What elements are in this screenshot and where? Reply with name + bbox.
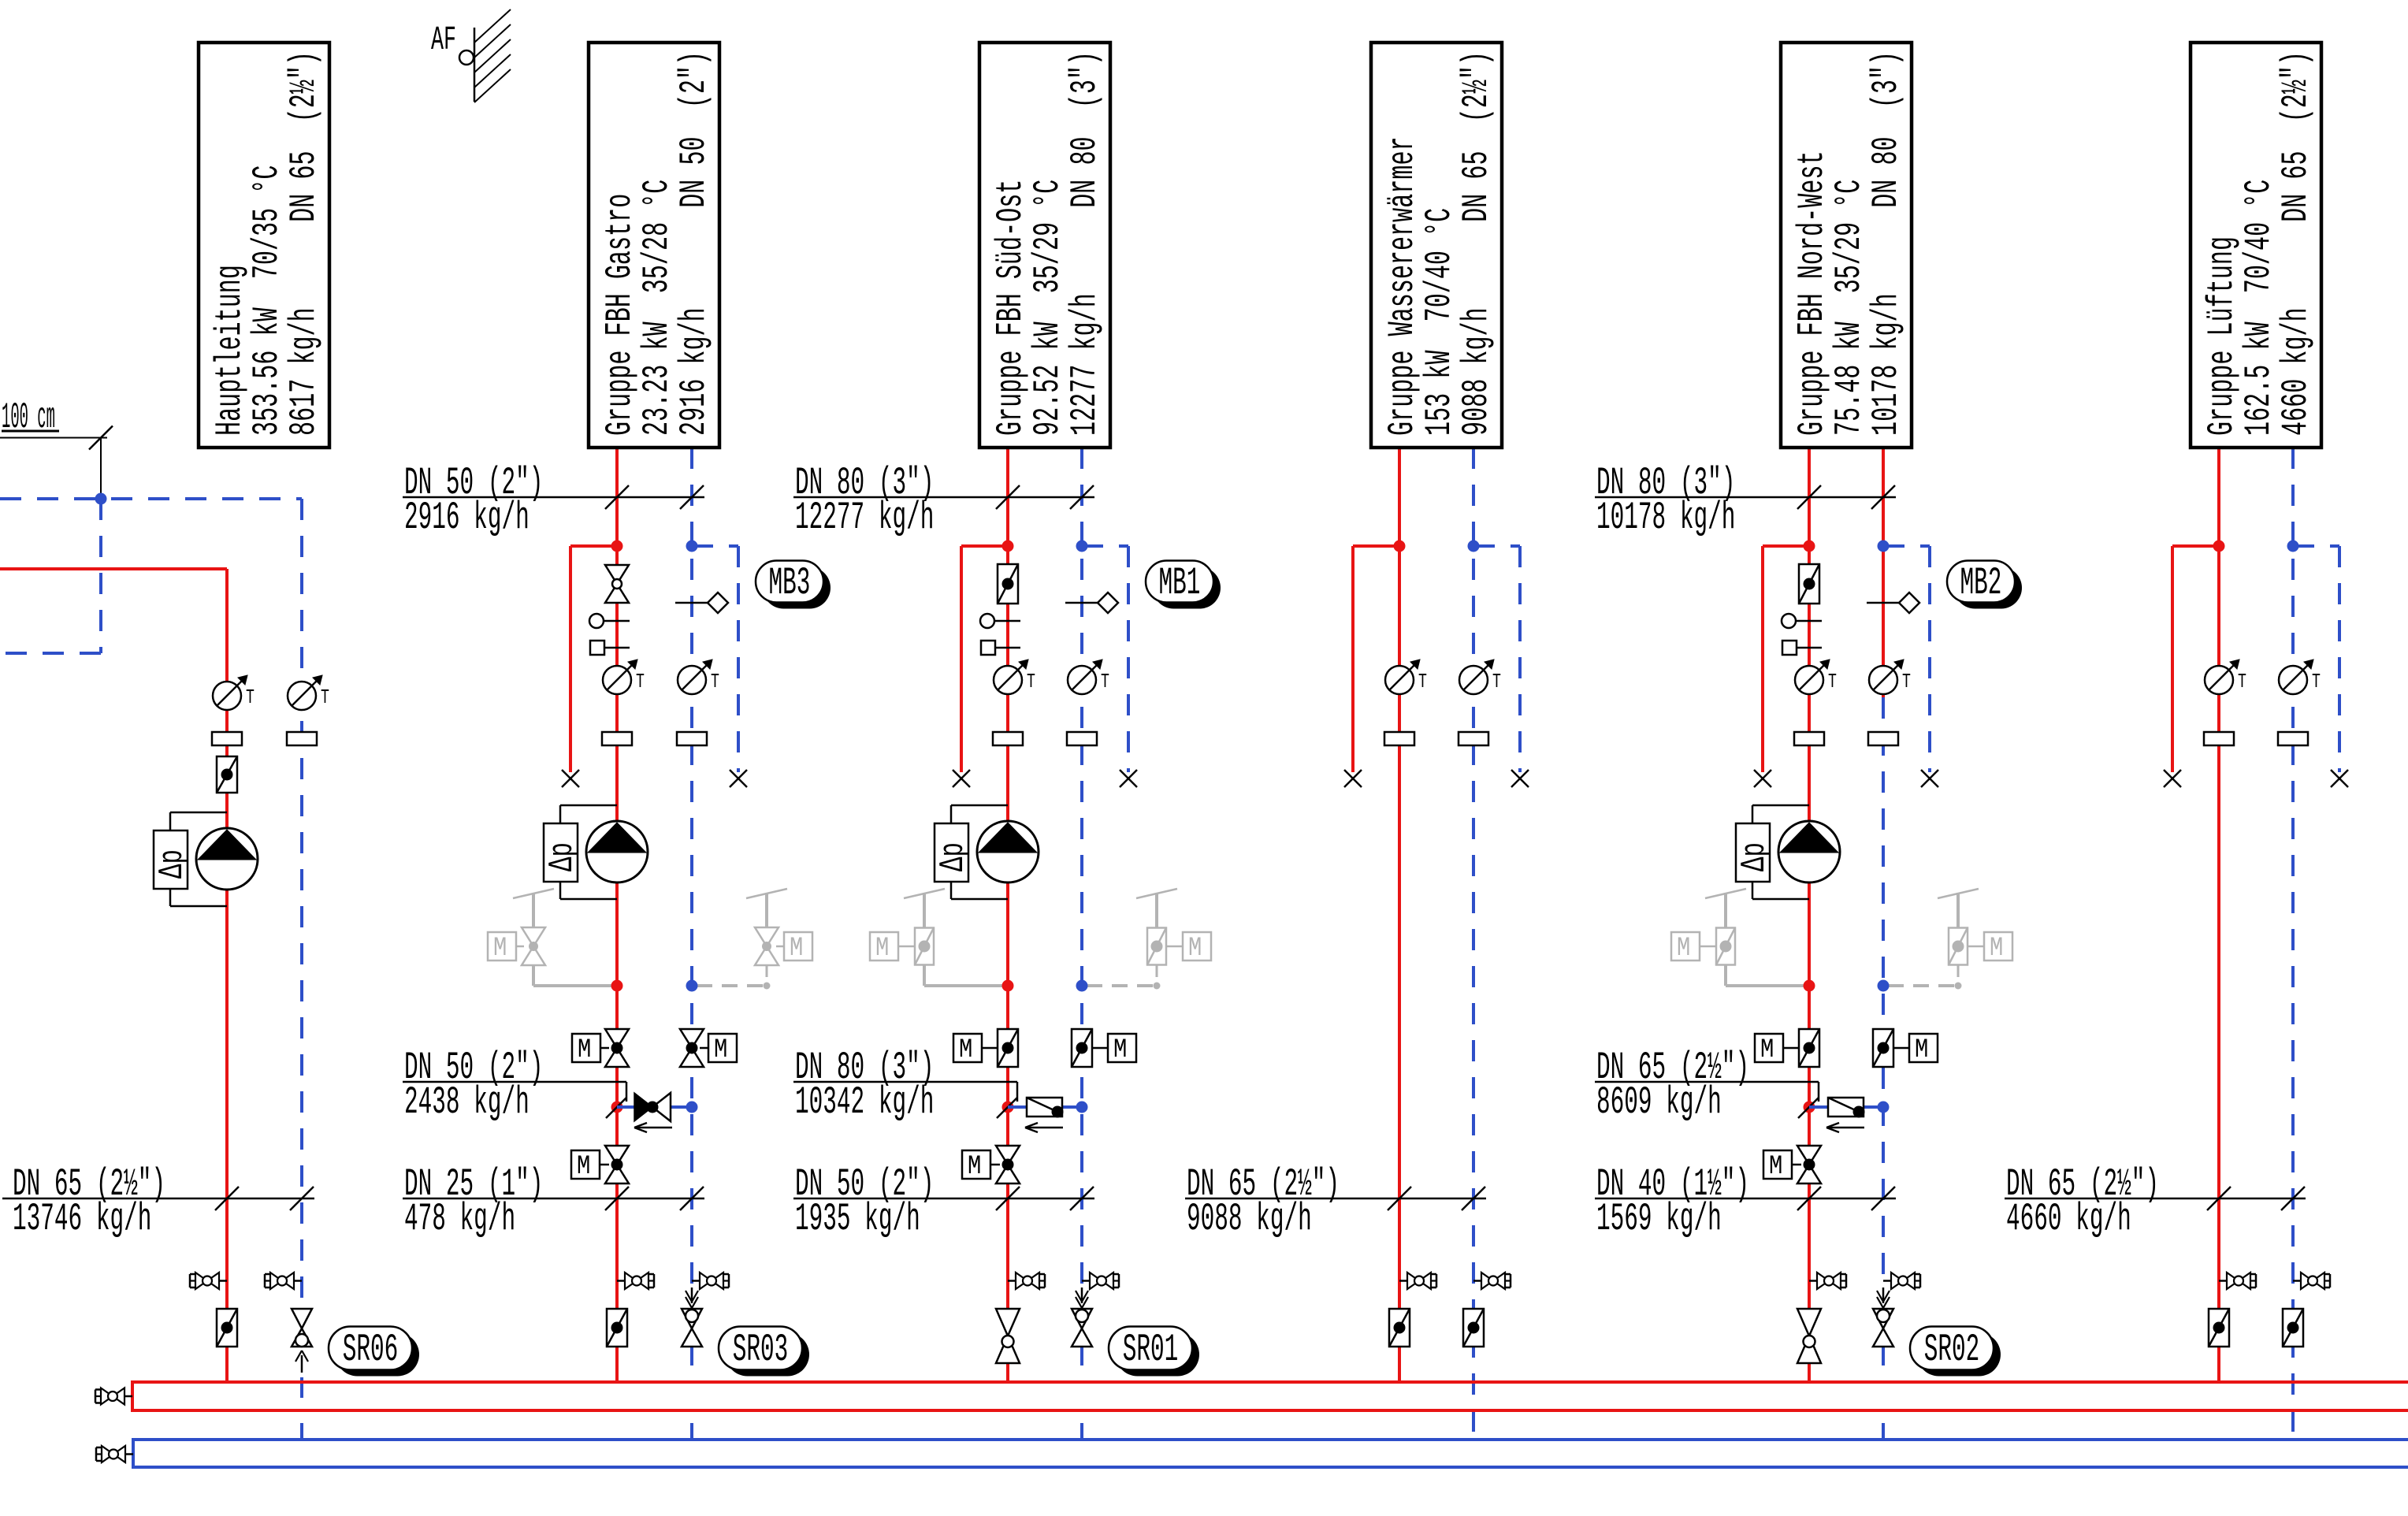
bypass pipe node supply Gruppe FBH Süd-Ost bbox=[997, 1098, 1017, 1118]
dimension label DN 80 (3") 10178 kg/h bbox=[1595, 462, 1896, 541]
drain valve return Gruppe FBH Nord-West bbox=[1883, 1273, 1920, 1289]
svg-text:M: M bbox=[790, 934, 803, 964]
supply riser (red) Gruppe FBH Nord-West bbox=[1808, 448, 1811, 1382]
svg-text:M: M bbox=[1188, 934, 1202, 964]
info box Gruppe FBH Nord-West bbox=[1781, 43, 1912, 448]
return branch node Gruppe Lüftung bbox=[2287, 541, 2299, 552]
svg-text:Gruppe FBH Süd-Ost: Gruppe FBH Süd-Ost bbox=[990, 180, 1031, 436]
shut-off valve return Gruppe Lüftung bbox=[2283, 1309, 2303, 1347]
safety valve return main bbox=[292, 1309, 312, 1440]
svg-text:Gruppe FBH Nord-West: Gruppe FBH Nord-West bbox=[1792, 150, 1833, 436]
flange supply Gruppe FBH Nord-West bbox=[1794, 732, 1824, 745]
svg-text:Gruppe Lüftung: Gruppe Lüftung bbox=[2202, 236, 2243, 436]
bypass pipe (blue) Gruppe FBH Nord-West bbox=[1809, 1105, 1883, 1109]
motor valve M return Gruppe FBH Gastro bbox=[680, 1029, 737, 1067]
scale bar 100 cm bbox=[2, 397, 59, 438]
return riser (blue dashed) Gruppe Wassererwärmer bbox=[1472, 448, 1475, 1440]
sensor (circle) supply Gruppe FBH Gastro bbox=[589, 614, 630, 628]
check valve Gruppe FBH Gastro bbox=[634, 1093, 671, 1121]
flange return Gruppe Wassererwärmer bbox=[1459, 732, 1488, 745]
return branch node Gruppe FBH Gastro bbox=[686, 541, 698, 552]
svg-text:T: T bbox=[636, 670, 645, 693]
bypass motor valve right (inactive) Gruppe FBH Süd-Ost bbox=[1087, 889, 1211, 990]
svg-text:4660 kg/h: 4660 kg/h bbox=[2006, 1198, 2131, 1242]
bypass node supply Gruppe FBH Gastro bbox=[611, 980, 623, 992]
sensor (circle) supply Gruppe FBH Nord-West bbox=[1782, 614, 1822, 628]
drain valve return main bbox=[265, 1273, 302, 1289]
supply riser (red) Gruppe Wassererwärmer bbox=[1398, 448, 1401, 1382]
drain valve supply Gruppe FBH Süd-Ost bbox=[1008, 1273, 1045, 1289]
bypass pipe node return Gruppe FBH Nord-West bbox=[1878, 1102, 1890, 1113]
supply riser (red) Gruppe Lüftung bbox=[2217, 448, 2220, 1382]
thermometer T return main bbox=[288, 675, 329, 710]
drain valve supply Gruppe FBH Nord-West bbox=[1809, 1273, 1846, 1289]
svg-text:92.52 kW 35/29 °C: 92.52 kW 35/29 °C bbox=[1027, 180, 1068, 436]
drain valve supply main bbox=[190, 1273, 227, 1289]
motor valve M bypass Gruppe FBH Nord-West bbox=[1763, 1146, 1821, 1183]
dimension label DN 80 (3") 10342 kg/h bbox=[793, 1046, 1017, 1125]
svg-text:75.48 kW 35/29 °C: 75.48 kW 35/29 °C bbox=[1829, 180, 1870, 436]
drain valve supply Gruppe Wassererwärmer bbox=[1399, 1273, 1436, 1289]
balancing valve supply main bbox=[217, 756, 237, 793]
svg-text:M: M bbox=[493, 934, 507, 964]
thermometer T return Gruppe FBH Süd-Ost bbox=[1068, 660, 1109, 694]
bypass pipe node supply Gruppe FBH Gastro bbox=[606, 1098, 626, 1118]
svg-text:Gruppe FBH Gastro: Gruppe FBH Gastro bbox=[600, 194, 641, 436]
svg-text:M: M bbox=[1990, 934, 2003, 964]
svg-text:12277 kg/h: 12277 kg/h bbox=[795, 496, 934, 541]
return riser upper (red) Gruppe FBH Nord-West bbox=[1882, 448, 1885, 697]
drain valve return manifold bbox=[96, 1446, 133, 1462]
bypass node return Gruppe FBH Nord-West bbox=[1878, 980, 1890, 992]
flow arrow Gruppe FBH Gastro bbox=[634, 1123, 672, 1132]
bypass motor valve left (inactive) Gruppe FBH Süd-Ost bbox=[870, 889, 1005, 986]
motor valve M supply Gruppe FBH Süd-Ost bbox=[953, 1029, 1018, 1067]
motor valve M return Gruppe FBH Süd-Ost bbox=[1072, 1029, 1136, 1067]
svg-text:T: T bbox=[1828, 670, 1837, 693]
motor valve M bypass Gruppe FBH Gastro bbox=[571, 1146, 629, 1183]
check valve Gruppe FBH Nord-West bbox=[1828, 1098, 1865, 1118]
label MB1 bbox=[1146, 561, 1221, 609]
svg-text:Δp: Δp bbox=[543, 842, 582, 871]
label SR03 bbox=[719, 1327, 809, 1377]
svg-text:162.5 kW 70/40 °C: 162.5 kW 70/40 °C bbox=[2239, 180, 2280, 436]
dimension label DN 25 (1") 478 kg/h bbox=[403, 1163, 704, 1242]
svg-text:M: M bbox=[959, 1035, 972, 1065]
dimension label DN 80 (3") 12277 kg/h bbox=[793, 462, 1094, 541]
svg-text:2438 kg/h: 2438 kg/h bbox=[404, 1081, 530, 1125]
svg-text:T: T bbox=[2238, 670, 2246, 693]
svg-text:353.56 kW 70/35 °C: 353.56 kW 70/35 °C bbox=[247, 165, 288, 436]
label SR01 bbox=[1109, 1327, 1199, 1377]
motor valve M supply Gruppe FBH Gastro bbox=[572, 1029, 629, 1067]
flange supply Gruppe FBH Gastro bbox=[602, 732, 632, 745]
flange return Gruppe FBH Gastro bbox=[677, 732, 707, 745]
supply main (red) from left bbox=[0, 569, 227, 1382]
svg-text:AF: AF bbox=[431, 20, 456, 59]
info box Gruppe Wassererwärmer bbox=[1371, 43, 1502, 448]
pump P main with dp controller bbox=[153, 812, 258, 906]
sensor (circle) supply Gruppe FBH Süd-Ost bbox=[980, 614, 1020, 628]
svg-text:12277 kg/h DN 80 (3"): 12277 kg/h DN 80 (3") bbox=[1065, 51, 1106, 436]
svg-text:T: T bbox=[1418, 670, 1427, 693]
thermometer T supply Gruppe FBH Nord-West bbox=[1795, 660, 1837, 694]
bypass node supply Gruppe FBH Süd-Ost bbox=[1002, 980, 1014, 992]
svg-text:Δp: Δp bbox=[153, 849, 192, 879]
return manifold (blue bus) bbox=[133, 1438, 2408, 1469]
svg-text:SR02: SR02 bbox=[1924, 1328, 1980, 1373]
supply branch node Gruppe FBH Gastro bbox=[611, 541, 623, 552]
dimension label DN 65 (2½") 9088 kg/h bbox=[1185, 1163, 1486, 1242]
svg-text:Δp: Δp bbox=[1735, 842, 1774, 871]
flange return main bbox=[287, 732, 317, 745]
flange return Gruppe Lüftung bbox=[2278, 732, 2308, 745]
svg-text:MB2: MB2 bbox=[1960, 562, 2002, 606]
control valve supply Gruppe FBH Nord-West bbox=[1799, 564, 1819, 604]
return riser (blue dashed) Gruppe FBH Süd-Ost bbox=[1080, 448, 1083, 1287]
flange supply Gruppe Wassererwärmer bbox=[1384, 732, 1414, 745]
svg-text:MB1: MB1 bbox=[1159, 562, 1201, 606]
svg-text:1569 kg/h: 1569 kg/h bbox=[1596, 1198, 1722, 1242]
return riser (blue dashed) Gruppe Lüftung bbox=[2291, 448, 2295, 1440]
svg-text:100 cm: 100 cm bbox=[2, 397, 55, 438]
control valve supply Gruppe FBH Gastro bbox=[605, 565, 629, 603]
wall bracket AF bbox=[431, 9, 511, 102]
thermometer T supply Gruppe FBH Süd-Ost bbox=[994, 660, 1035, 694]
motor valve M return Gruppe FBH Nord-West bbox=[1873, 1029, 1938, 1067]
sensor (square) supply Gruppe FBH Gastro bbox=[590, 641, 630, 655]
dimension label DN 65 (2½") 4660 kg/h bbox=[2005, 1163, 2306, 1242]
svg-text:M: M bbox=[1769, 1152, 1782, 1182]
svg-text:9088 kg/h: 9088 kg/h bbox=[1187, 1198, 1312, 1242]
check valve Gruppe FBH Süd-Ost bbox=[1027, 1098, 1064, 1118]
sensor pocket return Gruppe FBH Gastro bbox=[675, 593, 728, 613]
supply branch node Gruppe Wassererwärmer bbox=[1394, 541, 1406, 552]
supply manifold (red bus) bbox=[132, 1380, 2408, 1412]
bypass node return Gruppe FBH Süd-Ost bbox=[1076, 980, 1088, 992]
info box Gruppe FBH Gastro bbox=[589, 43, 719, 448]
control valve supply Gruppe FBH Süd-Ost bbox=[998, 564, 1018, 604]
svg-text:M: M bbox=[1677, 934, 1690, 964]
svg-text:T: T bbox=[1492, 670, 1501, 693]
thermometer T return Gruppe FBH Nord-West bbox=[1869, 660, 1911, 694]
svg-text:23.23 kW 35/28 °C: 23.23 kW 35/28 °C bbox=[637, 180, 678, 436]
thermometer T supply main bbox=[213, 675, 255, 710]
label SR06 bbox=[329, 1327, 419, 1377]
bypass pipe node supply Gruppe FBH Nord-West bbox=[1798, 1098, 1819, 1118]
shut-off valve supply Gruppe FBH Gastro bbox=[607, 1309, 627, 1347]
motor valve M supply Gruppe FBH Nord-West bbox=[1755, 1029, 1819, 1067]
thermometer T supply Gruppe Lüftung bbox=[2205, 660, 2246, 694]
svg-text:153 kW 70/40 °C: 153 kW 70/40 °C bbox=[1419, 208, 1460, 436]
pump P Gruppe FBH Nord-West with dp controller bbox=[1735, 805, 1840, 899]
dimension label DN 50 (2") 2438 kg/h bbox=[403, 1046, 626, 1125]
svg-text:2916 kg/h: 2916 kg/h bbox=[404, 496, 530, 541]
shut-off valve supply Gruppe FBH Süd-Ost bbox=[996, 1309, 1020, 1363]
svg-text:10178 kg/h: 10178 kg/h bbox=[1596, 496, 1735, 541]
supply branch with cap Gruppe FBH Süd-Ost bbox=[953, 546, 1008, 787]
sensor (square) supply Gruppe FBH Süd-Ost bbox=[981, 641, 1020, 655]
dimension line to return main bbox=[0, 426, 113, 500]
bypass motor valve right (inactive) Gruppe FBH Gastro bbox=[697, 889, 812, 990]
motor valve M bypass Gruppe FBH Süd-Ost bbox=[962, 1146, 1020, 1183]
return branch with cap Gruppe Lüftung bbox=[2293, 546, 2348, 787]
svg-text:M: M bbox=[714, 1035, 727, 1065]
dimension label DN 50 (2") 2916 kg/h bbox=[403, 462, 704, 541]
thermometer T return Gruppe FBH Gastro bbox=[678, 660, 719, 694]
supply riser (red) Gruppe FBH Gastro bbox=[615, 448, 619, 1382]
thermometer T supply Gruppe Wassererwärmer bbox=[1385, 660, 1427, 694]
bypass node return Gruppe FBH Gastro bbox=[686, 980, 698, 992]
safety valve return Gruppe FBH Nord-West bbox=[1873, 1287, 1893, 1440]
supply branch with cap Gruppe FBH Nord-West bbox=[1754, 546, 1809, 787]
supply riser (red) Gruppe FBH Süd-Ost bbox=[1006, 448, 1009, 1382]
svg-text:Hauptleitung: Hauptleitung bbox=[210, 265, 251, 436]
dimension label DN 65 (2½") 8609 kg/h bbox=[1595, 1046, 1819, 1125]
pump P Gruppe FBH Gastro with dp controller bbox=[543, 805, 648, 899]
bypass motor valve left (inactive) Gruppe FBH Gastro bbox=[488, 889, 614, 986]
shut-off valve supply Gruppe Wassererwärmer bbox=[1389, 1309, 1410, 1347]
svg-text:T: T bbox=[1101, 670, 1109, 693]
svg-text:SR06: SR06 bbox=[343, 1328, 399, 1373]
return branch node bbox=[95, 493, 107, 505]
flow arrow Gruppe FBH Nord-West bbox=[1826, 1123, 1864, 1132]
svg-text:8609 kg/h: 8609 kg/h bbox=[1596, 1081, 1722, 1125]
info box Hauptleitung bbox=[199, 43, 329, 448]
bypass motor valve left (inactive) Gruppe FBH Nord-West bbox=[1671, 889, 1806, 986]
drain valve return Gruppe Wassererwärmer bbox=[1473, 1273, 1511, 1289]
svg-text:T: T bbox=[246, 686, 255, 709]
return branch with cap Gruppe FBH Nord-West bbox=[1883, 546, 1938, 787]
supply branch node Gruppe FBH Nord-West bbox=[1804, 541, 1815, 552]
flange return Gruppe FBH Nord-West bbox=[1868, 732, 1898, 745]
thermometer T return Gruppe Lüftung bbox=[2279, 660, 2321, 694]
return branch with cap Gruppe FBH Süd-Ost bbox=[1082, 546, 1137, 787]
safety valve return Gruppe FBH Gastro bbox=[682, 1287, 702, 1440]
bypass pipe node return Gruppe FBH Süd-Ost bbox=[1076, 1102, 1088, 1113]
svg-text:Gruppe Wassererwärmer: Gruppe Wassererwärmer bbox=[1382, 136, 1423, 436]
svg-text:8617 kg/h DN 65 (2½"): 8617 kg/h DN 65 (2½") bbox=[284, 51, 325, 436]
bypass pipe (blue) Gruppe FBH Gastro bbox=[617, 1105, 692, 1109]
drain valve supply Gruppe Lüftung bbox=[2219, 1273, 2256, 1289]
svg-text:9088 kg/h DN 65 (2½"): 9088 kg/h DN 65 (2½") bbox=[1456, 51, 1497, 436]
drain valve supply manifold bbox=[95, 1388, 132, 1405]
label SR02 bbox=[1910, 1327, 2001, 1377]
bypass motor valve right (inactive) Gruppe FBH Nord-West bbox=[1888, 889, 2012, 990]
thermometer T return Gruppe Wassererwärmer bbox=[1459, 660, 1501, 694]
flow arrow Gruppe FBH Süd-Ost bbox=[1025, 1123, 1063, 1132]
svg-text:M: M bbox=[875, 934, 889, 964]
svg-text:M: M bbox=[1915, 1035, 1928, 1065]
shut-off valve supply main bbox=[217, 1309, 237, 1347]
drain valve return Gruppe Lüftung bbox=[2293, 1273, 2330, 1289]
shut-off valve supply Gruppe FBH Nord-West bbox=[1797, 1309, 1821, 1363]
svg-text:10178 kg/h DN 80 (3"): 10178 kg/h DN 80 (3") bbox=[1866, 51, 1907, 436]
supply branch node Gruppe Lüftung bbox=[2213, 541, 2225, 552]
dimension label DN 40 (1½") 1569 kg/h bbox=[1595, 1163, 1896, 1242]
flange return Gruppe FBH Süd-Ost bbox=[1067, 732, 1097, 745]
flange supply Gruppe Lüftung bbox=[2204, 732, 2234, 745]
svg-text:SR03: SR03 bbox=[733, 1328, 789, 1373]
sensor (square) supply Gruppe FBH Nord-West bbox=[1782, 641, 1822, 655]
flange supply Gruppe FBH Süd-Ost bbox=[993, 732, 1023, 745]
svg-text:10342 kg/h: 10342 kg/h bbox=[795, 1081, 934, 1125]
return main (blue dashed) from left bbox=[0, 499, 302, 1306]
supply branch node Gruppe FBH Süd-Ost bbox=[1002, 541, 1014, 552]
return branch node Gruppe Wassererwärmer bbox=[1468, 541, 1480, 552]
sensor pocket return Gruppe FBH Nord-West bbox=[1867, 593, 1919, 613]
svg-text:T: T bbox=[1027, 670, 1035, 693]
return riser (blue dashed) Gruppe FBH Nord-West bbox=[1882, 697, 1885, 1287]
svg-text:T: T bbox=[711, 670, 719, 693]
info box Gruppe FBH Süd-Ost bbox=[979, 43, 1110, 448]
supply branch with cap Gruppe Wassererwärmer bbox=[1344, 546, 1399, 787]
svg-text:T: T bbox=[2312, 670, 2321, 693]
svg-text:4660 kg/h DN 65 (2½"): 4660 kg/h DN 65 (2½") bbox=[2276, 51, 2317, 436]
shut-off valve supply Gruppe Lüftung bbox=[2209, 1309, 2229, 1347]
svg-text:2916 kg/h DN 50 (2"): 2916 kg/h DN 50 (2") bbox=[674, 51, 715, 436]
svg-text:478 kg/h: 478 kg/h bbox=[404, 1198, 515, 1242]
pump P Gruppe FBH Süd-Ost with dp controller bbox=[934, 805, 1039, 899]
info box Gruppe Lüftung bbox=[2191, 43, 2321, 448]
return branch node Gruppe FBH Süd-Ost bbox=[1076, 541, 1088, 552]
drain valve return Gruppe FBH Süd-Ost bbox=[1082, 1273, 1119, 1289]
drain valve return Gruppe FBH Gastro bbox=[692, 1273, 729, 1289]
return branch with cap Gruppe FBH Gastro bbox=[692, 546, 747, 787]
svg-text:T: T bbox=[1902, 670, 1911, 693]
svg-text:13746 kg/h: 13746 kg/h bbox=[13, 1198, 151, 1242]
supply branch with cap Gruppe Lüftung bbox=[2164, 546, 2219, 787]
svg-text:1935 kg/h: 1935 kg/h bbox=[795, 1198, 920, 1242]
return riser (blue dashed) Gruppe FBH Gastro bbox=[690, 448, 693, 1287]
dimension label DN 65 (2½") 13746 kg/h bbox=[2, 1163, 314, 1242]
svg-text:M: M bbox=[1760, 1035, 1774, 1065]
flange supply main bbox=[212, 732, 242, 745]
label MB3 bbox=[756, 561, 831, 609]
safety valve return Gruppe FBH Süd-Ost bbox=[1072, 1287, 1092, 1440]
return branch with cap Gruppe Wassererwärmer bbox=[1473, 546, 1529, 787]
svg-text:Δp: Δp bbox=[934, 842, 973, 871]
shut-off valve return Gruppe Wassererwärmer bbox=[1463, 1309, 1484, 1347]
svg-text:SR01: SR01 bbox=[1123, 1328, 1179, 1373]
svg-text:M: M bbox=[577, 1152, 590, 1182]
svg-text:M: M bbox=[578, 1035, 591, 1065]
svg-text:M: M bbox=[1113, 1035, 1127, 1065]
dimension label DN 50 (2") 1935 kg/h bbox=[793, 1163, 1094, 1242]
thermometer T supply Gruppe FBH Gastro bbox=[603, 660, 645, 694]
supply branch with cap Gruppe FBH Gastro bbox=[562, 546, 617, 787]
svg-text:M: M bbox=[968, 1152, 981, 1182]
svg-text:T: T bbox=[321, 686, 329, 709]
svg-text:MB3: MB3 bbox=[769, 562, 811, 606]
return branch node Gruppe FBH Nord-West bbox=[1878, 541, 1890, 552]
bypass pipe (blue) Gruppe FBH Süd-Ost bbox=[1008, 1105, 1082, 1109]
drain valve supply Gruppe FBH Gastro bbox=[617, 1273, 654, 1289]
return stub to expansion (blue dashed) bbox=[0, 499, 101, 653]
sensor pocket return Gruppe FBH Süd-Ost bbox=[1065, 593, 1118, 613]
bypass node supply Gruppe FBH Nord-West bbox=[1804, 980, 1815, 992]
bypass pipe node return Gruppe FBH Gastro bbox=[686, 1102, 698, 1113]
label MB2 bbox=[1947, 561, 2022, 609]
